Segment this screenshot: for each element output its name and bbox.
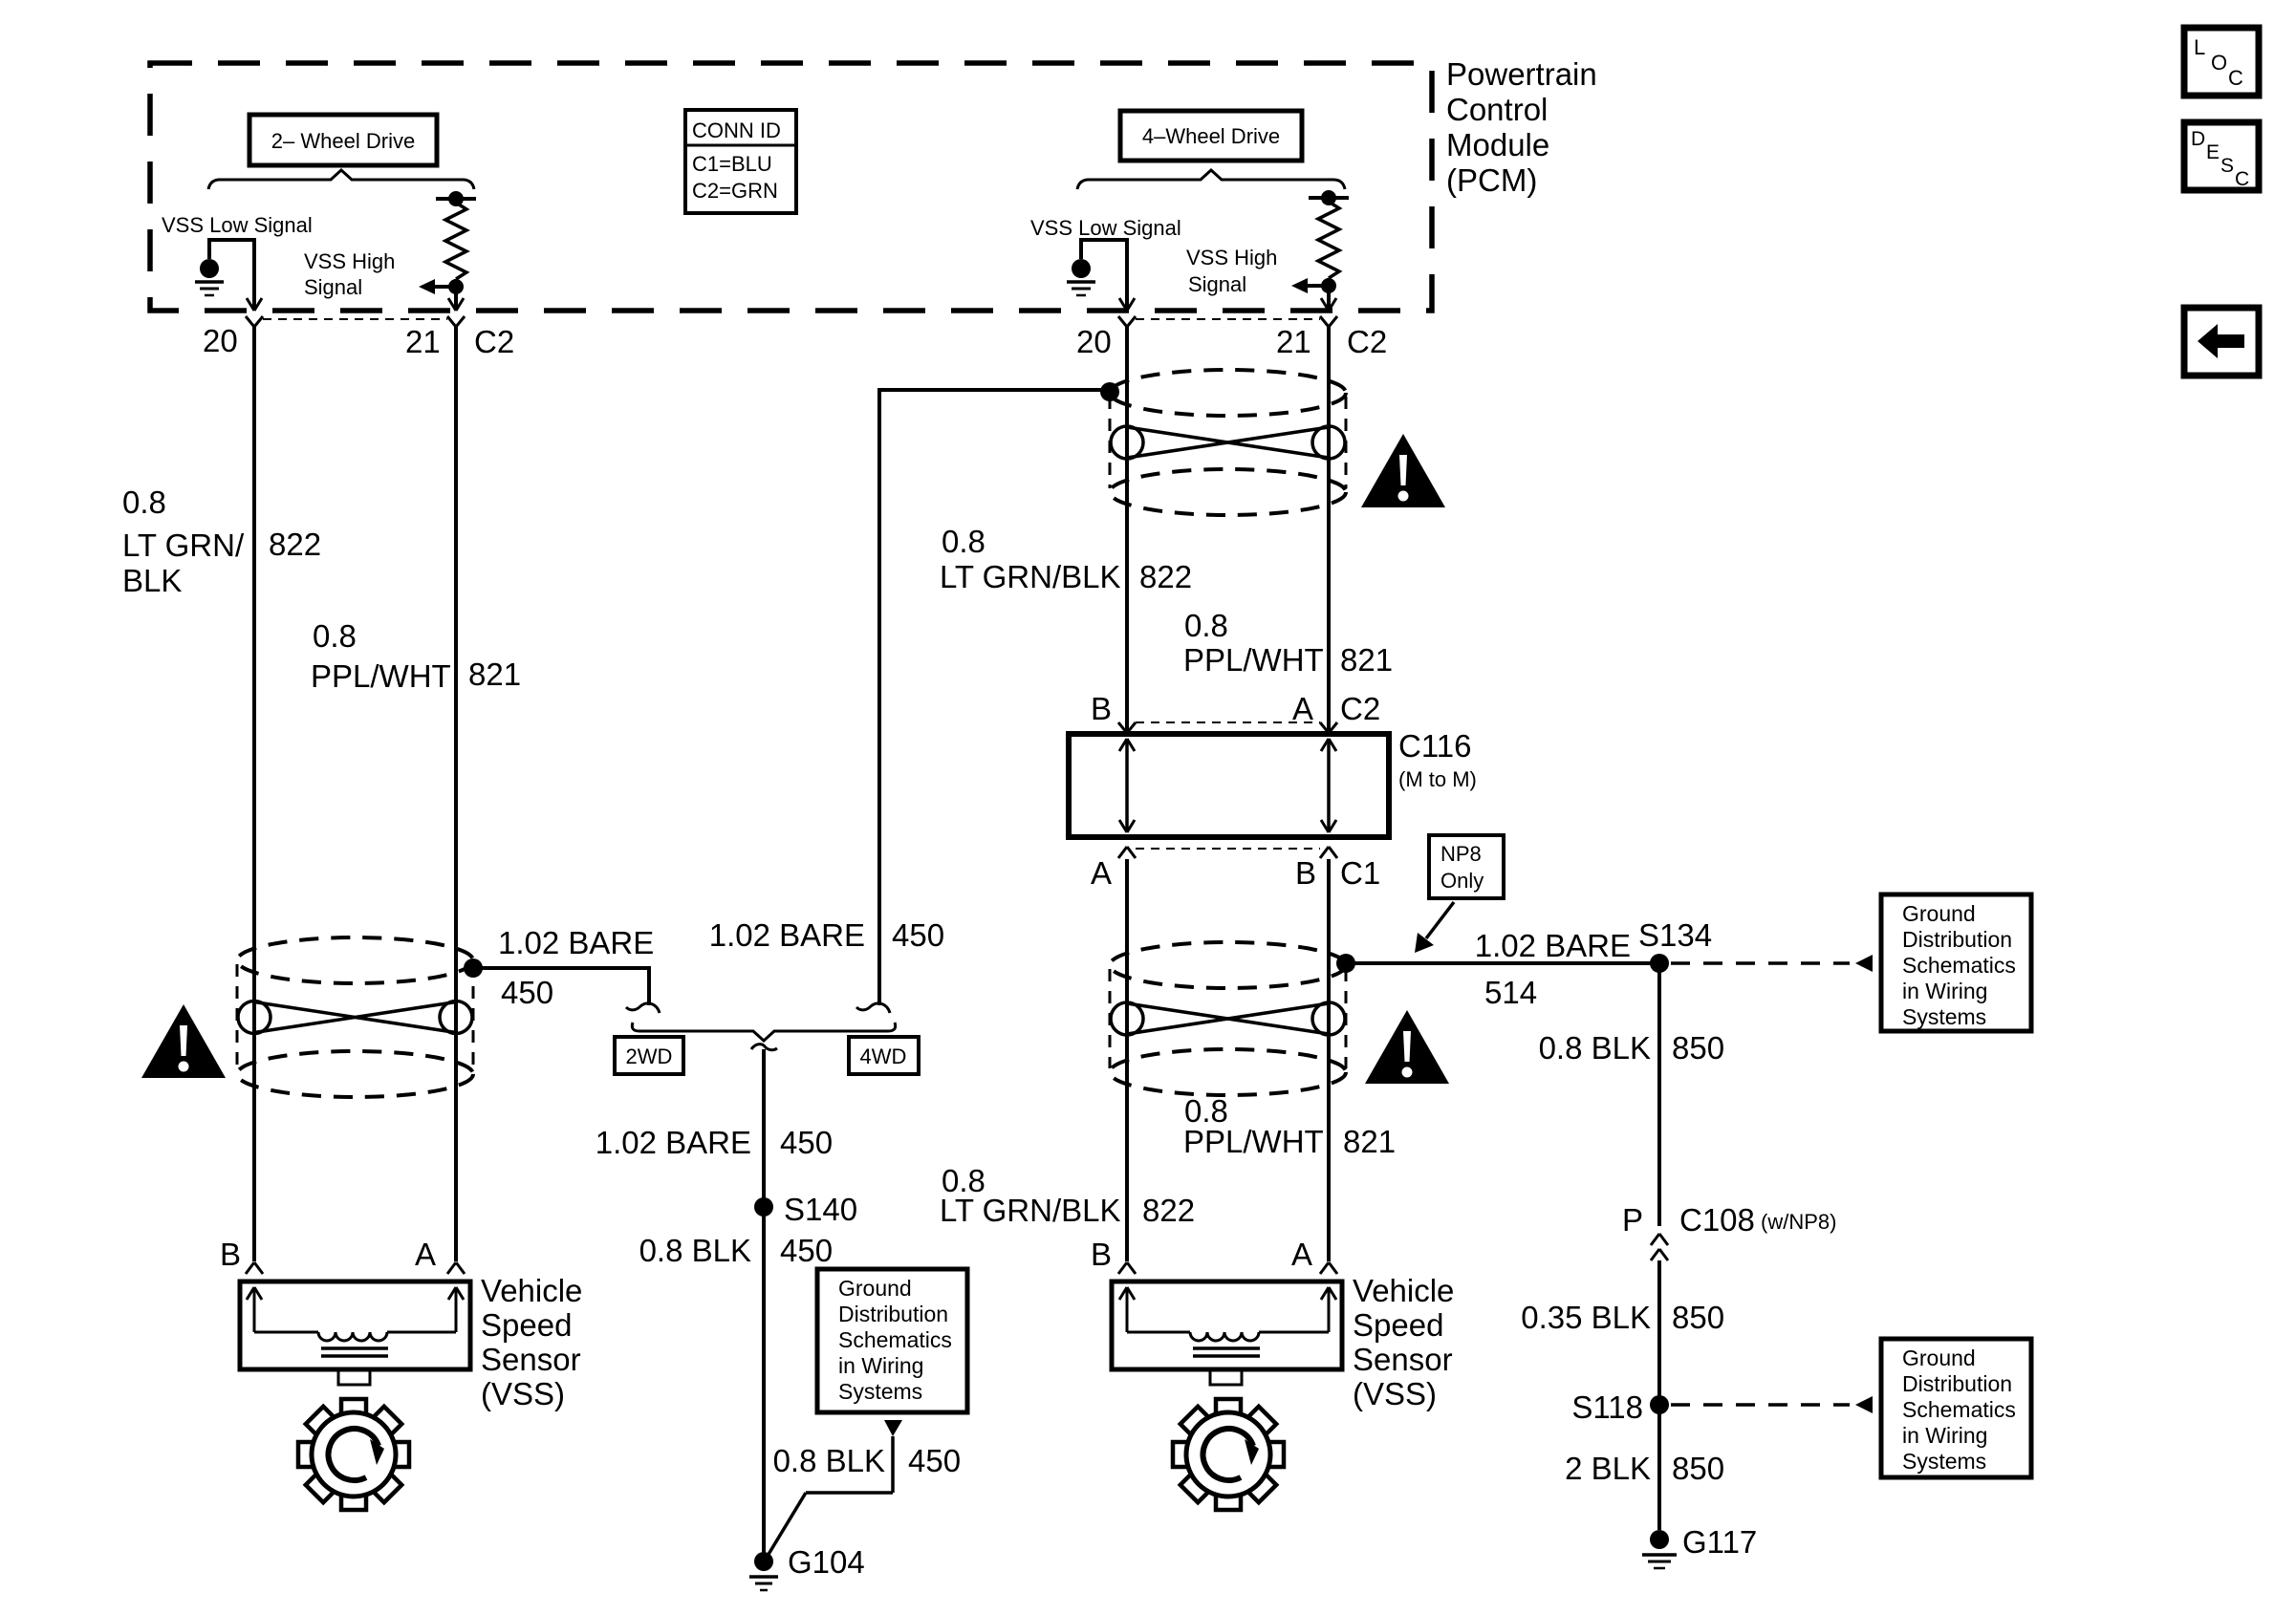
svg-text:Sensor: Sensor: [1353, 1342, 1453, 1377]
svg-text:Schematics: Schematics: [1902, 953, 2016, 978]
svg-text:1.02 BARE: 1.02 BARE: [498, 925, 654, 960]
svg-text:in Wiring: in Wiring: [1902, 1423, 1987, 1448]
svg-text:S: S: [2220, 155, 2234, 177]
svg-text:Signal: Signal: [304, 275, 362, 299]
svg-text:VSS Low Signal: VSS Low Signal: [162, 213, 313, 237]
svg-text:850: 850: [1672, 1451, 1724, 1486]
svg-text:Distribution: Distribution: [1902, 1371, 2012, 1396]
svg-text:20: 20: [203, 323, 238, 358]
svg-text:G104: G104: [788, 1544, 865, 1580]
svg-text:CONN ID: CONN ID: [692, 118, 781, 142]
svg-text:822: 822: [1139, 559, 1192, 594]
svg-text:B: B: [1091, 1237, 1112, 1272]
svg-text:0.8: 0.8: [1184, 608, 1228, 643]
svg-text:0.8: 0.8: [313, 618, 357, 654]
svg-text:Module: Module: [1446, 127, 1549, 162]
svg-text:450: 450: [892, 917, 944, 953]
svg-text:PPL/WHT: PPL/WHT: [311, 658, 451, 694]
svg-text:C2=GRN: C2=GRN: [692, 179, 778, 203]
svg-text:BLK: BLK: [122, 563, 182, 598]
svg-text:B: B: [1091, 691, 1112, 726]
svg-text:LT GRN/BLK: LT GRN/BLK: [940, 1193, 1121, 1228]
svg-text:Vehicle: Vehicle: [1353, 1273, 1454, 1308]
svg-text:0.8 BLK: 0.8 BLK: [1539, 1030, 1651, 1066]
svg-text:Distribution: Distribution: [1902, 927, 2012, 952]
svg-text:514: 514: [1484, 975, 1537, 1010]
svg-text:21: 21: [1276, 324, 1311, 359]
svg-text:VSS High: VSS High: [1186, 246, 1277, 269]
svg-text:4WD: 4WD: [860, 1044, 907, 1068]
svg-text:850: 850: [1672, 1030, 1724, 1066]
svg-text:Only: Only: [1440, 869, 1484, 893]
svg-text:E: E: [2206, 141, 2220, 163]
svg-text:S140: S140: [784, 1192, 857, 1227]
svg-text:Systems: Systems: [1902, 1004, 1986, 1029]
svg-text:(VSS): (VSS): [1353, 1376, 1437, 1411]
svg-text:A: A: [1291, 1237, 1312, 1272]
svg-text:450: 450: [501, 975, 553, 1010]
svg-text:0.8 BLK: 0.8 BLK: [773, 1443, 885, 1478]
svg-text:S134: S134: [1638, 917, 1712, 953]
svg-text:A: A: [1091, 855, 1112, 891]
svg-text:0.8 BLK: 0.8 BLK: [639, 1233, 751, 1268]
svg-text:P: P: [1622, 1202, 1643, 1238]
svg-text:1.02 BARE: 1.02 BARE: [709, 917, 865, 953]
svg-text:Vehicle: Vehicle: [481, 1273, 582, 1308]
svg-text:C116: C116: [1398, 728, 1471, 764]
svg-text:VSS High: VSS High: [304, 249, 395, 273]
svg-text:Control: Control: [1446, 92, 1548, 127]
svg-text:Signal: Signal: [1188, 272, 1246, 296]
svg-text:821: 821: [1340, 642, 1393, 678]
svg-text:0.8: 0.8: [942, 524, 986, 559]
svg-text:C: C: [2228, 66, 2243, 90]
svg-text:450: 450: [780, 1125, 833, 1160]
svg-text:2WD: 2WD: [626, 1044, 673, 1068]
svg-text:LT GRN/: LT GRN/: [122, 528, 245, 563]
svg-text:in Wiring: in Wiring: [838, 1353, 923, 1378]
svg-text:NP8: NP8: [1440, 842, 1482, 866]
svg-text:Systems: Systems: [838, 1379, 922, 1404]
svg-text:A: A: [415, 1237, 436, 1272]
svg-text:A: A: [1292, 691, 1313, 726]
svg-text:Schematics: Schematics: [1902, 1397, 2016, 1422]
svg-text:G117: G117: [1682, 1524, 1757, 1560]
svg-text:B: B: [1295, 855, 1316, 891]
svg-text:822: 822: [1142, 1193, 1195, 1228]
svg-text:0.8: 0.8: [122, 484, 166, 520]
svg-text:VSS Low Signal: VSS Low Signal: [1030, 216, 1181, 240]
svg-text:(PCM): (PCM): [1446, 162, 1537, 198]
svg-text:Ground: Ground: [838, 1276, 912, 1301]
svg-text:Systems: Systems: [1902, 1449, 1986, 1474]
svg-text:2– Wheel Drive: 2– Wheel Drive: [271, 129, 415, 153]
svg-text:450: 450: [780, 1233, 833, 1268]
svg-text:(w/NP8): (w/NP8): [1761, 1210, 1836, 1234]
svg-text:S118: S118: [1571, 1389, 1643, 1425]
svg-text:D: D: [2191, 128, 2205, 150]
svg-text:821: 821: [1343, 1124, 1396, 1159]
svg-text:O: O: [2211, 51, 2227, 75]
svg-text:C2: C2: [474, 324, 514, 359]
svg-text:2 BLK: 2 BLK: [1565, 1451, 1651, 1486]
svg-text:822: 822: [269, 527, 321, 562]
svg-text:C2: C2: [1340, 691, 1380, 726]
svg-text:C108: C108: [1679, 1202, 1755, 1238]
svg-text:Distribution: Distribution: [838, 1302, 948, 1326]
svg-text:Ground: Ground: [1902, 1346, 1976, 1370]
svg-text:850: 850: [1672, 1300, 1724, 1335]
svg-text:Ground: Ground: [1902, 901, 1976, 926]
svg-text:1.02 BARE: 1.02 BARE: [1475, 928, 1631, 963]
svg-text:(M to M): (M to M): [1398, 767, 1477, 791]
svg-text:Schematics: Schematics: [838, 1327, 952, 1352]
svg-text:PPL/WHT: PPL/WHT: [1183, 1124, 1324, 1159]
svg-text:C: C: [2235, 168, 2249, 190]
svg-text:4–Wheel Drive: 4–Wheel Drive: [1142, 124, 1280, 148]
svg-text:L: L: [2194, 35, 2205, 59]
svg-text:20: 20: [1076, 324, 1112, 359]
svg-text:1.02 BARE: 1.02 BARE: [596, 1125, 751, 1160]
svg-text:LT GRN/BLK: LT GRN/BLK: [940, 559, 1121, 594]
svg-text:Powertrain: Powertrain: [1446, 56, 1597, 92]
svg-text:Speed: Speed: [1353, 1307, 1443, 1343]
svg-text:B: B: [220, 1237, 241, 1272]
svg-text:in Wiring: in Wiring: [1902, 979, 1987, 1003]
svg-text:PPL/WHT: PPL/WHT: [1183, 642, 1324, 678]
svg-text:C2: C2: [1347, 324, 1387, 359]
svg-text:821: 821: [468, 657, 521, 692]
svg-text:450: 450: [908, 1443, 961, 1478]
svg-text:C1=BLU: C1=BLU: [692, 152, 772, 176]
svg-text:(VSS): (VSS): [481, 1376, 565, 1411]
svg-text:C1: C1: [1340, 855, 1380, 891]
svg-text:Sensor: Sensor: [481, 1342, 581, 1377]
svg-text:Speed: Speed: [481, 1307, 572, 1343]
svg-text:0.35 BLK: 0.35 BLK: [1521, 1300, 1651, 1335]
svg-text:21: 21: [405, 324, 441, 359]
